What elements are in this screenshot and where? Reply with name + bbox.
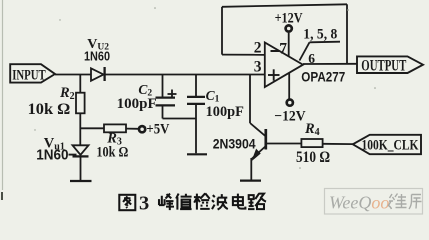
svg-text:10k Ω: 10k Ω — [96, 144, 128, 160]
svg-text:INPUT: INPUT — [12, 68, 46, 84]
svg-text:7: 7 — [279, 40, 287, 57]
svg-text:1N60: 1N60 — [84, 48, 110, 63]
svg-text:3: 3 — [139, 193, 149, 215]
svg-text:+5V: +5V — [146, 122, 169, 138]
svg-text:6: 6 — [308, 51, 315, 66]
svg-text:+12V: +12V — [275, 10, 303, 26]
svg-text:100pF: 100pF — [117, 96, 157, 112]
svg-text:510 Ω: 510 Ω — [296, 149, 330, 166]
svg-text:100K_CLK: 100K_CLK — [362, 138, 419, 154]
svg-text:OPA277: OPA277 — [301, 68, 345, 84]
svg-text:10k Ω: 10k Ω — [28, 101, 71, 118]
svg-text:2N3904: 2N3904 — [213, 135, 256, 151]
svg-text:−12V: −12V — [274, 109, 306, 125]
svg-text:100pF: 100pF — [206, 104, 244, 120]
svg-text:3: 3 — [254, 58, 262, 75]
svg-text:1, 5, 8: 1, 5, 8 — [303, 26, 337, 42]
svg-text:1N60: 1N60 — [36, 148, 68, 164]
svg-text:2: 2 — [254, 39, 262, 56]
svg-text:WeeQoo: WeeQoo — [329, 193, 389, 213]
svg-text:OUTPUT: OUTPUT — [361, 58, 406, 75]
